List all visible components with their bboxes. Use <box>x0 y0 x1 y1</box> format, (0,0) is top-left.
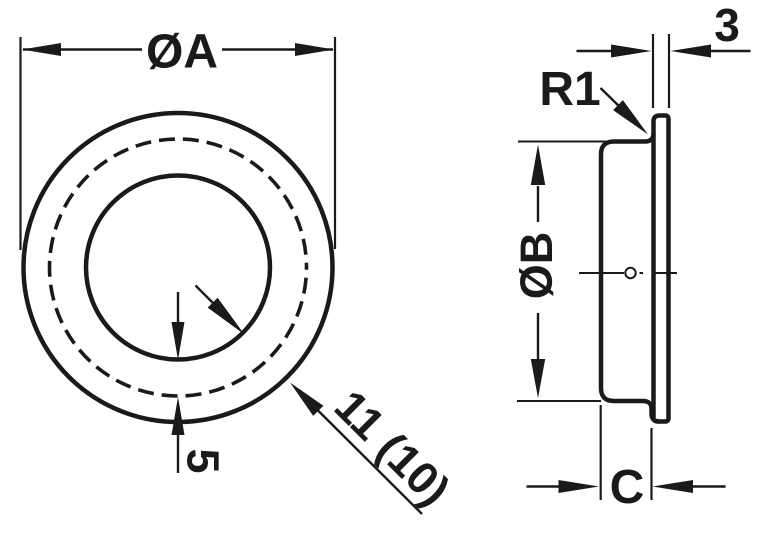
dimension C line left with arrow <box>527 485 581 487</box>
inner circle <box>86 176 270 360</box>
leader line 11 (10) <box>313 406 422 515</box>
dimension 5 lower line with up arrow at dashed circle <box>177 430 179 473</box>
dimension OA line left segment <box>23 48 142 50</box>
R1 leader line with arrowhead <box>601 88 626 112</box>
dimension 5 upper line with down arrow at inner circle <box>177 292 179 330</box>
dimension OB line lower with down arrow <box>537 313 539 359</box>
dimension OB extension line upper <box>518 141 610 143</box>
dimension OA extension line left <box>19 37 21 250</box>
dashed circle (groove) <box>50 139 307 396</box>
dimension C extension line right <box>650 428 652 500</box>
outer circle <box>24 113 333 422</box>
side view flange plate <box>654 116 669 422</box>
dimension 3 line left with arrow <box>577 50 631 52</box>
dimension 3 extension line right <box>668 34 670 108</box>
svg-text:5: 5 <box>178 448 229 473</box>
dimension 3 line right with arrow <box>692 50 751 52</box>
svg-text:R1: R1 <box>539 63 600 116</box>
centerline with hole circle <box>579 272 624 274</box>
leader arrowhead at outer circle <box>290 383 323 416</box>
svg-text:ØB: ØB <box>511 232 562 300</box>
dimension C extension line left <box>600 405 602 500</box>
svg-text:C: C <box>610 461 645 514</box>
dimension OB extension line lower <box>517 400 601 402</box>
svg-text:ØA: ØA <box>146 26 218 79</box>
svg-text:3: 3 <box>714 0 740 51</box>
radius leader arrow to inner circle at 45deg <box>196 286 226 316</box>
dimension 3 extension line left <box>652 34 654 108</box>
dimension OA arrowhead right <box>295 43 334 56</box>
dimension OA arrowhead left <box>22 43 61 56</box>
dimension OA line right segment <box>222 48 333 50</box>
dimension OB line upper with up arrow <box>537 186 539 222</box>
side view cup profile <box>601 133 660 422</box>
dimension OA extension line right <box>334 37 336 249</box>
dimension C line right with arrow <box>673 485 726 487</box>
